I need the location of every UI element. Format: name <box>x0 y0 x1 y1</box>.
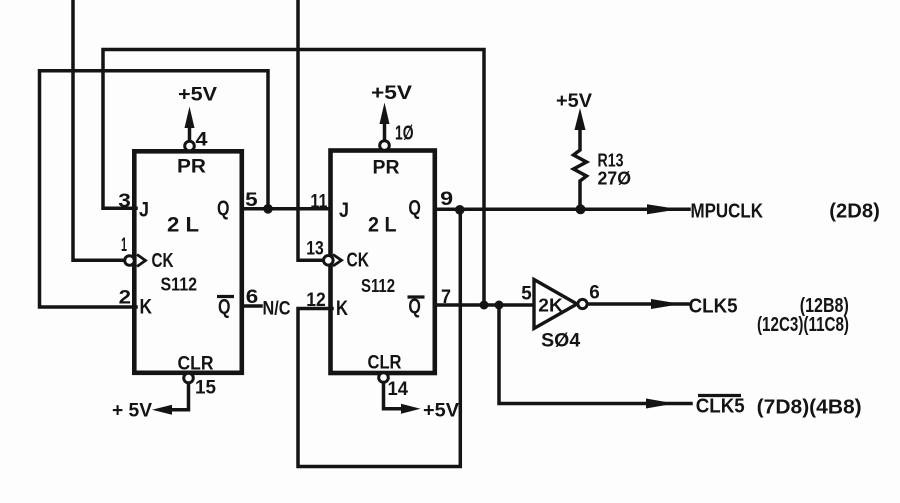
svg-text:Q: Q <box>218 296 231 319</box>
wire Q2 to MPUCLK <box>436 208 689 212</box>
wire CLR1 to +5V <box>172 383 189 410</box>
arrowhead +5V PR1 <box>185 107 195 129</box>
clock wedge FF2 <box>333 255 342 267</box>
inverter U2K (S04) triangle <box>534 280 577 329</box>
svg-text:7: 7 <box>441 287 451 308</box>
flip-flop FF2 box (S112, U2L) <box>331 151 435 374</box>
svg-text:Q: Q <box>217 197 230 220</box>
wire Q1 to J2 <box>242 207 330 211</box>
svg-text:PR: PR <box>373 158 400 179</box>
wire CLR2 to +5V <box>384 382 402 409</box>
wire K1 feedback from Q1 node <box>40 71 269 307</box>
flip-flop FF1 box (S112, U2L) <box>134 151 242 372</box>
arrowhead MPUCLK <box>647 204 679 214</box>
bubble PR1 <box>185 141 195 151</box>
overline Qbar FF1 <box>217 295 234 298</box>
svg-text:2 L: 2 L <box>167 214 199 237</box>
bubble PR2 <box>380 141 390 151</box>
svg-text:9: 9 <box>440 189 453 210</box>
wire CK2 from off-page top <box>298 0 321 260</box>
svg-text:+5V: +5V <box>423 401 459 422</box>
wire inverter output <box>587 302 688 306</box>
bubble CLR1 <box>184 373 194 383</box>
svg-text:K: K <box>140 296 153 319</box>
svg-text:14: 14 <box>388 379 409 400</box>
svg-text:CLR: CLR <box>368 353 402 374</box>
svg-text:6: 6 <box>589 283 600 304</box>
svg-text:CLR: CLR <box>178 354 214 375</box>
arrowhead +5V PR2 <box>380 103 390 125</box>
svg-text:J: J <box>339 199 349 222</box>
svg-text:1Ø: 1Ø <box>395 123 414 145</box>
clock wedge FF1 <box>137 255 146 267</box>
svg-text:K: K <box>336 297 348 320</box>
svg-text:CLK5: CLK5 <box>689 296 738 318</box>
wire N/C stub on Q-bar-1 <box>244 304 261 308</box>
junction dot Qbar2/J1 feedback <box>480 301 489 310</box>
svg-text:+5V: +5V <box>556 91 592 112</box>
svg-text:2 L: 2 L <box>368 214 397 237</box>
bubble CK1 <box>125 256 135 266</box>
svg-text:CK: CK <box>152 250 174 272</box>
wire K2 feedback loop from Q2 node <box>298 213 460 467</box>
overline CLK5-bar <box>698 394 741 397</box>
bubble CK2 <box>324 255 334 265</box>
junction dot Qbar2/CLK5bar <box>495 301 504 310</box>
svg-text:+5V: +5V <box>371 83 412 104</box>
svg-text:6: 6 <box>246 287 258 308</box>
arrowhead CLK5-bar <box>646 399 675 409</box>
svg-text:12: 12 <box>306 290 326 311</box>
svg-text:SØ4: SØ4 <box>541 331 580 352</box>
bubble CLR2 <box>379 373 389 383</box>
wire J1 feedback from Q-bar-2 node <box>103 50 484 304</box>
arrowhead +5V R13 <box>575 108 586 130</box>
wire PR2 +5V stem <box>383 123 387 141</box>
svg-text:(12C3)(11C8): (12C3)(11C8) <box>757 314 849 336</box>
svg-text:PR: PR <box>177 157 206 178</box>
junction dot Q2/loop <box>455 205 465 215</box>
svg-text:S112: S112 <box>161 275 198 295</box>
resistor R13 <box>574 129 587 209</box>
svg-text:5: 5 <box>521 284 532 305</box>
svg-text:Q: Q <box>408 197 421 220</box>
svg-text:15: 15 <box>195 378 216 399</box>
svg-text:1: 1 <box>121 235 127 256</box>
svg-text:J: J <box>139 199 149 222</box>
svg-text:R13: R13 <box>598 151 624 171</box>
arrowhead +5V CLR1 (points left) <box>152 405 172 415</box>
wire CLK5-bar branch <box>499 305 691 404</box>
svg-text:2: 2 <box>119 287 131 308</box>
svg-text:11: 11 <box>310 192 327 213</box>
junction dot R13/MPUCLK <box>576 204 586 214</box>
svg-text:(2D8): (2D8) <box>829 201 880 223</box>
bubble inverter output <box>578 299 587 308</box>
wire CK1 from off-page top <box>73 0 124 260</box>
svg-text:S112: S112 <box>361 276 395 296</box>
svg-text:5: 5 <box>245 190 258 211</box>
svg-text:CLK5: CLK5 <box>696 396 745 418</box>
svg-text:13: 13 <box>306 239 324 260</box>
arrowhead CLK5 <box>651 299 681 309</box>
svg-text:CK: CK <box>347 250 370 272</box>
svg-text:4: 4 <box>196 130 208 151</box>
svg-text:2K: 2K <box>538 296 563 316</box>
svg-text:+ 5V: + 5V <box>112 401 152 422</box>
svg-text:N/C: N/C <box>263 299 291 320</box>
svg-text:27Ø: 27Ø <box>598 169 632 189</box>
svg-text:(7D8)(4B8): (7D8)(4B8) <box>757 397 862 419</box>
junction dot Q1/K1 feedback <box>263 204 273 214</box>
wire PR1 +5V stem <box>188 126 192 142</box>
svg-text:3: 3 <box>118 191 131 212</box>
svg-text:MPUCLK: MPUCLK <box>691 201 764 223</box>
arrowhead +5V CLR2 (points right) <box>401 404 421 414</box>
overline Qbar FF2 <box>408 295 425 298</box>
svg-text:+5V: +5V <box>178 85 217 106</box>
wire Q-bar-2 to inverter input <box>436 303 535 307</box>
